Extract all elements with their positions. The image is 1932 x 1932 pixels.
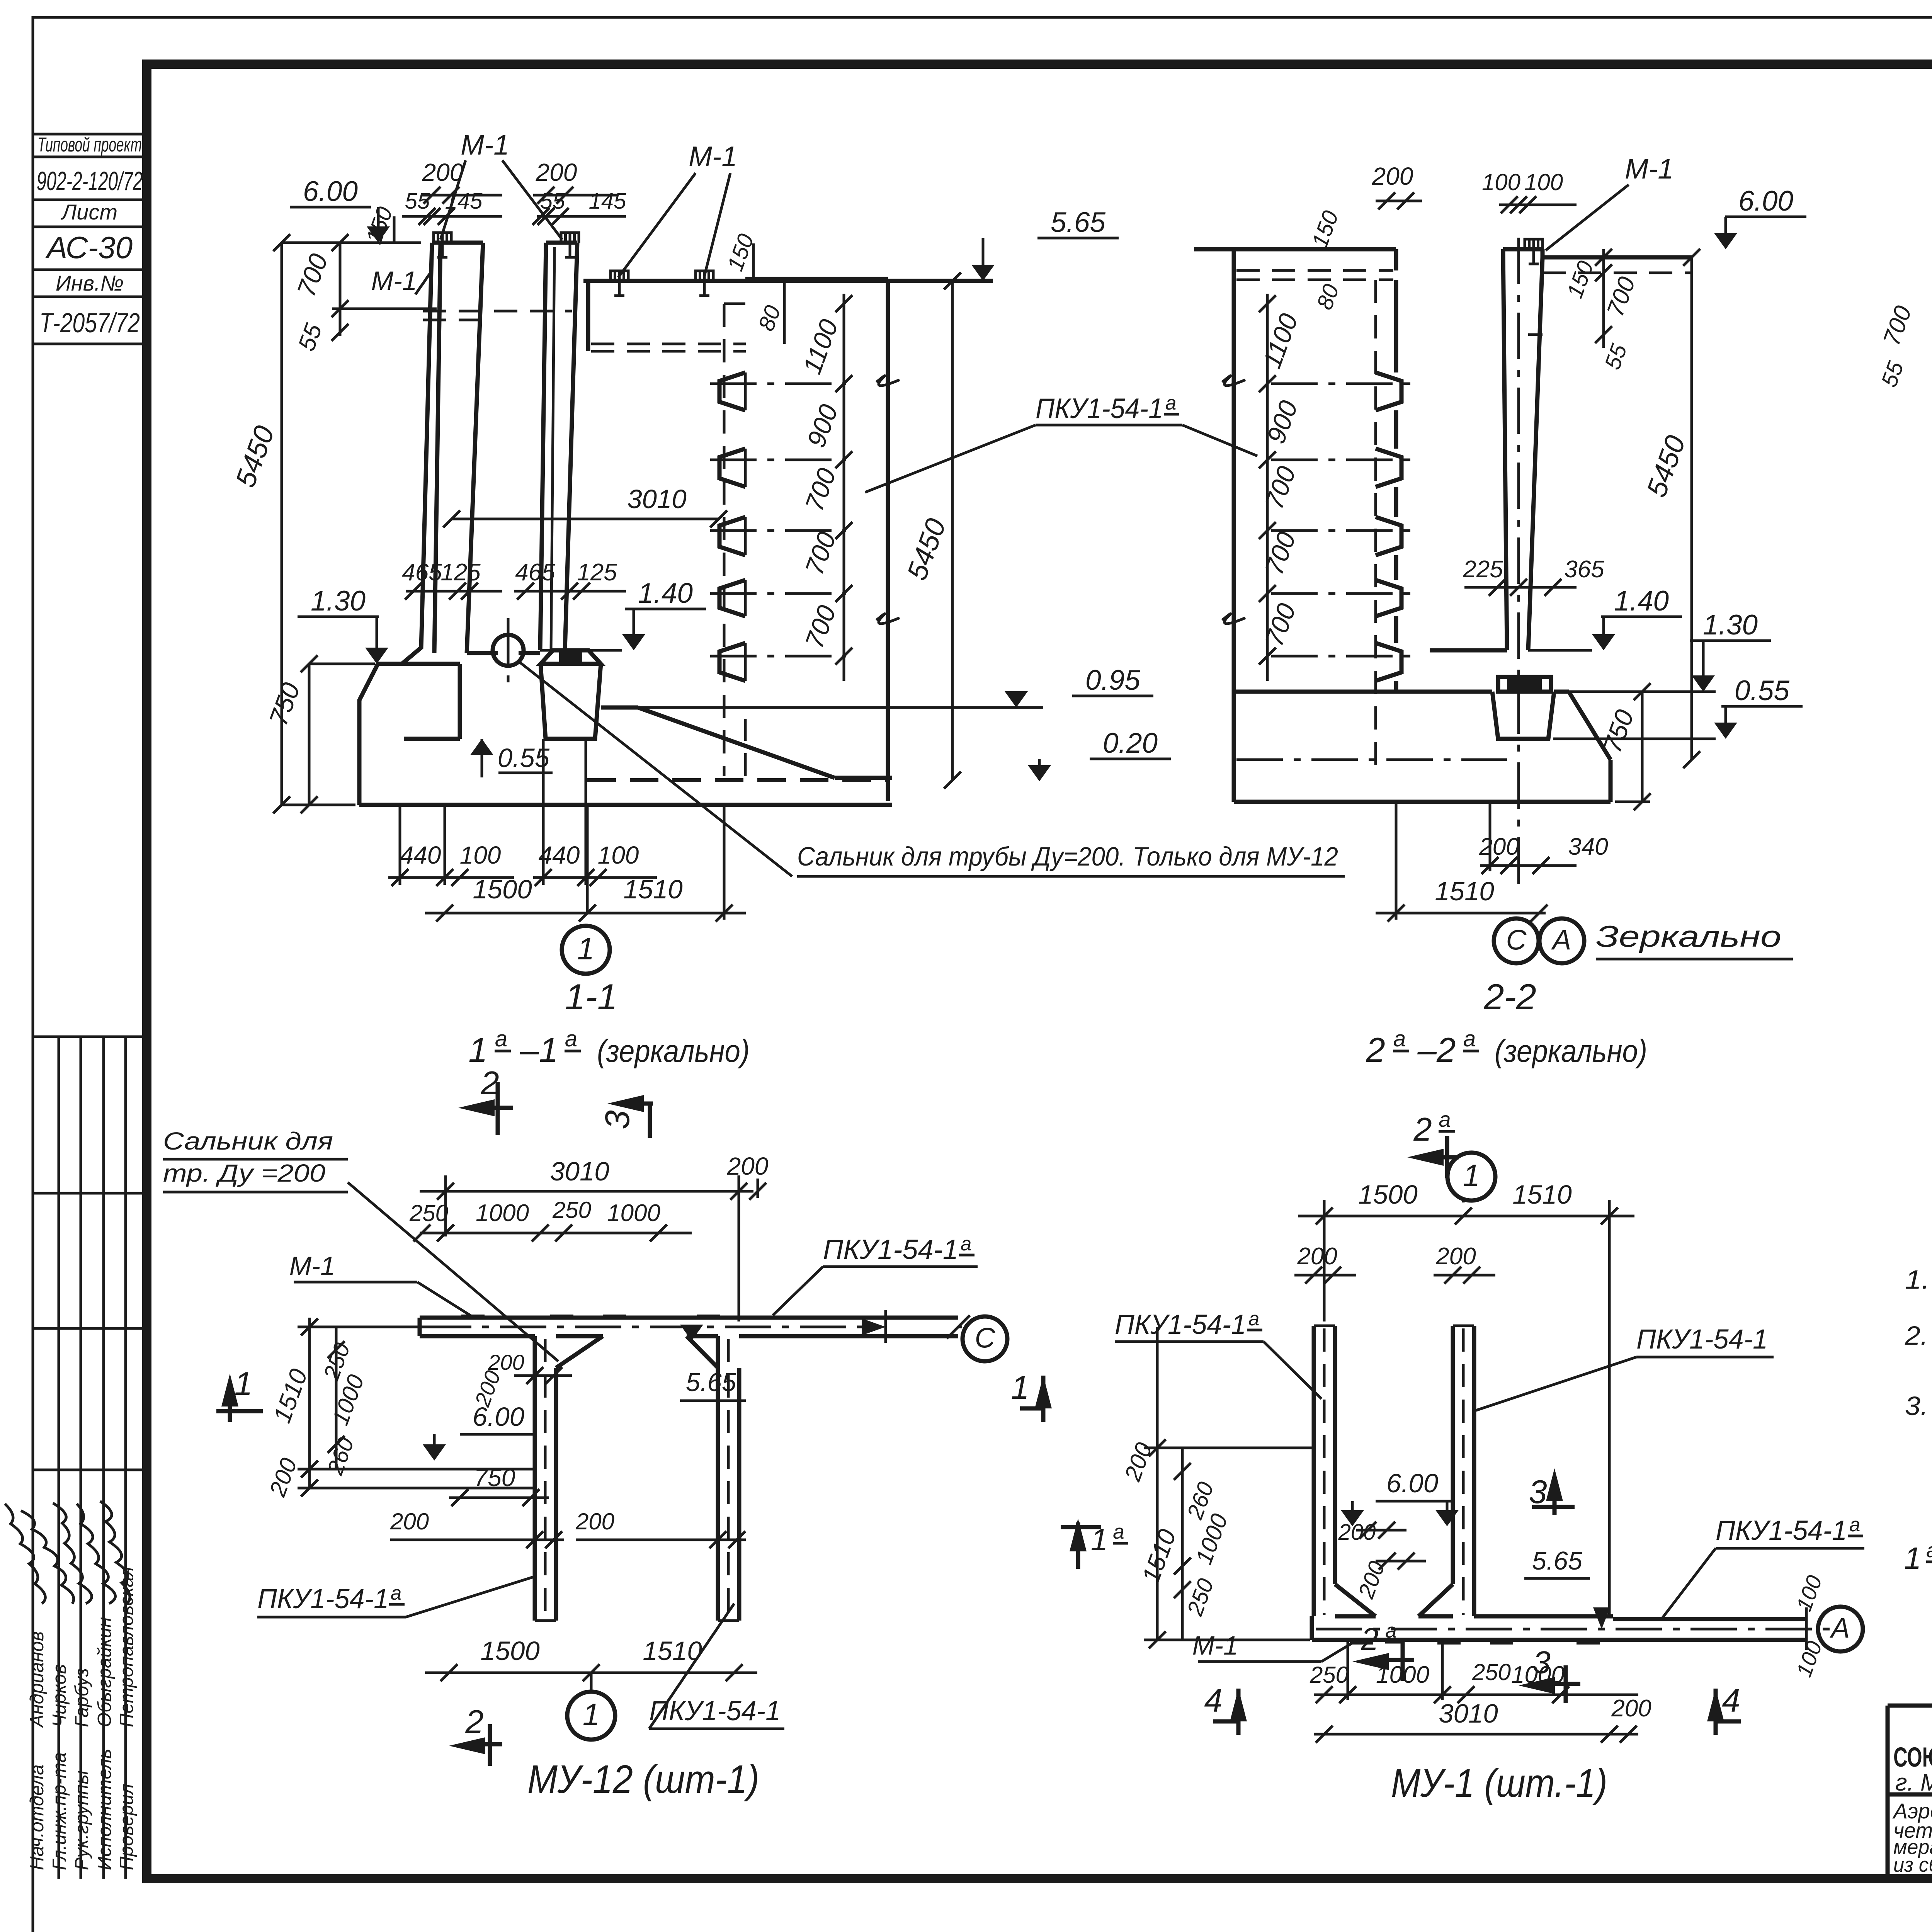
svg-text:340: 340 xyxy=(1568,833,1608,860)
svg-text:а: а xyxy=(961,1233,971,1255)
svg-text:а: а xyxy=(1165,392,1176,414)
svg-text:а: а xyxy=(1926,1539,1932,1562)
svg-text:440: 440 xyxy=(400,841,441,869)
MU-12 bottom dims 1500 1510 xyxy=(425,1672,757,1674)
svg-text:М-1: М-1 xyxy=(461,129,509,161)
section 1-1 footing base slab xyxy=(359,803,892,807)
svg-text:900: 900 xyxy=(802,401,844,451)
svg-text:200: 200 xyxy=(575,1509,614,1534)
section 2-2 right side dims 150 700 55 xyxy=(1602,249,1605,348)
svg-text:1510: 1510 xyxy=(1136,1526,1181,1587)
svg-text:1510: 1510 xyxy=(643,1636,702,1666)
svg-text:Гарбуз: Гарбуз xyxy=(71,1668,92,1727)
svg-text:М-1: М-1 xyxy=(1625,153,1673,185)
section 1-1 dim 5450 right xyxy=(951,281,954,780)
svg-text:2-2: 2-2 xyxy=(1483,976,1536,1017)
svg-text:(зеркально): (зеркально) xyxy=(597,1034,750,1069)
svg-text:750: 750 xyxy=(264,679,306,730)
svg-text:а: а xyxy=(1463,1026,1476,1051)
section 1-1 channel floor xyxy=(467,651,498,655)
svg-text:125: 125 xyxy=(577,559,617,586)
svg-text:–2: –2 xyxy=(1417,1031,1456,1069)
svg-text:200: 200 xyxy=(1297,1243,1337,1270)
svg-text:250: 250 xyxy=(1182,1575,1219,1619)
svg-text:4: 4 xyxy=(1204,1682,1222,1719)
svg-text:1: 1 xyxy=(577,931,595,966)
MU-1 inner 200 dims xyxy=(1356,1529,1406,1532)
svg-text:Лист: Лист xyxy=(61,200,117,224)
section 1-1 right wall outline xyxy=(540,243,546,650)
MU-1 bottom dims 250 1000 250 1000 xyxy=(1314,1694,1638,1696)
svg-text:3. Бетонирование производить: 3. Бетонирование производить с обязатель… xyxy=(1905,1391,1932,1421)
section 1-1 right top slab xyxy=(583,279,993,283)
section 2-2 top slab right xyxy=(1543,255,1692,260)
svg-text:700: 700 xyxy=(800,602,842,652)
svg-text:5.65: 5.65 xyxy=(1532,1546,1583,1575)
svg-text:а: а xyxy=(1113,1520,1124,1543)
MU-1 bottom dim 3010 200 xyxy=(1314,1733,1638,1736)
svg-text:Рук.группы: Рук.группы xyxy=(71,1770,92,1870)
svg-text:М-1: М-1 xyxy=(689,141,737,172)
svg-text:700: 700 xyxy=(292,250,334,301)
svg-text:Гл.инж.пр-та: Гл.инж.пр-та xyxy=(49,1752,70,1870)
svg-text:55: 55 xyxy=(405,189,430,214)
svg-text:260: 260 xyxy=(322,1434,359,1478)
section 2-2 footing base xyxy=(1234,800,1611,804)
svg-text:200: 200 xyxy=(1435,1243,1476,1270)
section 1-1 left wall outline xyxy=(402,243,432,664)
section 1-1 dim 5450 left xyxy=(281,243,283,805)
svg-text:700: 700 xyxy=(1260,528,1302,579)
MU-1 bottom wall band xyxy=(1312,1638,1806,1642)
svg-text:ПКУ1-54-1: ПКУ1-54-1 xyxy=(257,1584,389,1614)
svg-text:200: 200 xyxy=(488,1350,524,1374)
svg-text:200: 200 xyxy=(1479,833,1519,860)
svg-text:Типовой проект: Типовой проект xyxy=(37,134,142,156)
svg-text:3010: 3010 xyxy=(627,484,687,514)
svg-text:М-1: М-1 xyxy=(289,1251,335,1281)
svg-text:700: 700 xyxy=(1260,463,1302,513)
MU-1 dims 200 top xyxy=(1294,1274,1356,1277)
svg-text:200: 200 xyxy=(264,1454,302,1500)
svg-text:ПКУ1-54-1: ПКУ1-54-1 xyxy=(1636,1324,1768,1355)
svg-text:1: 1 xyxy=(234,1366,252,1402)
svg-text:а: а xyxy=(495,1026,507,1051)
svg-text:465: 465 xyxy=(402,559,442,586)
svg-text:100: 100 xyxy=(460,841,501,869)
svg-text:200: 200 xyxy=(727,1152,769,1180)
svg-text:225: 225 xyxy=(1463,556,1503,583)
section 2-2 bottom dim 1510 xyxy=(1376,912,1546,915)
svg-text:А: А xyxy=(1830,1612,1850,1644)
svg-text:1510: 1510 xyxy=(1435,876,1494,906)
svg-text:тр. Ду =200: тр. Ду =200 xyxy=(163,1159,325,1187)
svg-text:0.20: 0.20 xyxy=(1103,728,1158,759)
section 1-1 dim 750 xyxy=(308,664,311,805)
MU-12 inner corner chamfers xyxy=(556,1336,603,1368)
svg-text:55: 55 xyxy=(540,189,565,214)
section 1-1 axis circle 1 xyxy=(586,911,589,913)
svg-text:2: 2 xyxy=(1361,1622,1379,1657)
svg-text:Обыграйкин: Обыграйкин xyxy=(94,1617,115,1727)
title block frame xyxy=(1888,1704,1932,1708)
svg-text:6.00: 6.00 xyxy=(1738,185,1793,217)
svg-text:750: 750 xyxy=(1598,706,1640,757)
section 2-2 top dims xyxy=(1376,200,1422,202)
svg-text:125: 125 xyxy=(440,559,481,586)
svg-text:М-1: М-1 xyxy=(371,266,417,296)
svg-text:100: 100 xyxy=(598,841,639,869)
svg-text:5450: 5450 xyxy=(230,422,281,491)
svg-text:АС-30: АС-30 xyxy=(45,230,133,265)
svg-text:а: а xyxy=(391,1582,401,1604)
stamp column boxes xyxy=(33,133,147,136)
MU-12 axis circle 1 xyxy=(590,1673,593,1691)
svg-text:М-1: М-1 xyxy=(1192,1631,1238,1660)
section 1-1 middle pedestal xyxy=(559,652,582,662)
svg-text:200: 200 xyxy=(1611,1695,1651,1722)
svg-text:6.00: 6.00 xyxy=(473,1402,524,1432)
section 1-1 bottom dims 440 100 xyxy=(388,876,514,879)
svg-text:1: 1 xyxy=(468,1031,488,1069)
svg-text:(зеркально): (зеркально) xyxy=(1495,1034,1647,1069)
MU-12 M-1 plates on band xyxy=(461,1315,485,1319)
svg-text:а: а xyxy=(565,1026,577,1051)
svg-text:Сальник для: Сальник для xyxy=(163,1127,333,1155)
section 1-1 dims 465 125 xyxy=(406,590,502,593)
svg-text:1000: 1000 xyxy=(607,1200,660,1226)
svg-text:Сальник для трубы Ду=200. Толь: Сальник для трубы Ду=200. Только для МУ-… xyxy=(797,842,1338,871)
MU-12 dim 3010 200 top xyxy=(420,1190,753,1193)
MU-12 right wall band xyxy=(716,1336,720,1621)
svg-text:3010: 3010 xyxy=(1439,1699,1498,1728)
MU-12 left vertical dims xyxy=(308,1318,311,1488)
svg-text:150: 150 xyxy=(1307,207,1344,251)
svg-text:Андрианов: Андрианов xyxy=(27,1631,48,1728)
svg-text:0.95: 0.95 xyxy=(1085,665,1140,696)
svg-text:0.55: 0.55 xyxy=(1735,675,1789,706)
section 2-2 wall pedestal xyxy=(1507,679,1542,690)
section 1-1 pipe gland circle xyxy=(493,635,524,666)
MU-12 dims 250 1000 250 1000 xyxy=(420,1232,692,1235)
svg-text:1: 1 xyxy=(583,1697,600,1731)
section 1-1 top beam joint dashes xyxy=(423,310,572,313)
svg-text:1510: 1510 xyxy=(623,874,683,904)
MU-12 wall band ends xyxy=(535,1619,556,1622)
svg-text:4: 4 xyxy=(1722,1682,1740,1719)
svg-text:100: 100 xyxy=(1524,169,1563,195)
signatures scribbles xyxy=(5,1503,46,1604)
svg-text:Т-2057/72: Т-2057/72 xyxy=(39,308,140,338)
section 2-2 axis circles C A xyxy=(1494,918,1539,963)
section 1-1 right footing slope xyxy=(601,706,638,710)
section 1-1 left 700/55 dims xyxy=(339,243,342,336)
svg-text:700: 700 xyxy=(800,528,842,579)
section 2-2 channel floor left xyxy=(1430,648,1507,653)
svg-text:Проверил: Проверил xyxy=(116,1784,137,1870)
gland note and leader xyxy=(518,661,792,876)
MU-1 M-1 plates below band xyxy=(1350,1640,1373,1645)
svg-text:6.00: 6.00 xyxy=(303,176,358,207)
svg-text:440: 440 xyxy=(539,841,580,869)
section 2-2 footing slope right xyxy=(1569,692,1611,760)
svg-text:1-1: 1-1 xyxy=(565,976,617,1017)
section 1-1 top dims 200 xyxy=(421,194,502,197)
svg-text:1. Арматурный чертеж МУ-1 ,: 1. Арматурный чертеж МУ-1 , МУ-12 см. л.… xyxy=(1905,1265,1932,1294)
svg-text:80: 80 xyxy=(1312,281,1344,313)
svg-text:3: 3 xyxy=(1533,1645,1551,1680)
MU-12 left wall band xyxy=(533,1336,537,1621)
svg-text:1.40: 1.40 xyxy=(1614,585,1669,617)
svg-text:200: 200 xyxy=(1338,1520,1376,1545)
MU-1 C circle left xyxy=(963,1316,1007,1361)
section 2-2 precast panel xyxy=(1232,249,1236,802)
svg-text:1: 1 xyxy=(1463,1158,1480,1192)
svg-text:250: 250 xyxy=(1472,1659,1511,1685)
MU-1 inner corner chamfers xyxy=(1335,1584,1376,1616)
svg-text:55: 55 xyxy=(1876,358,1908,390)
svg-text:750: 750 xyxy=(474,1464,515,1492)
svg-text:Нач.отдела: Нач.отдела xyxy=(27,1765,48,1870)
svg-text:6.00: 6.00 xyxy=(1386,1468,1438,1498)
svg-text:5.65: 5.65 xyxy=(1051,207,1105,238)
svg-text:145: 145 xyxy=(589,189,627,214)
stamp signature grid xyxy=(33,1036,147,1038)
svg-text:2: 2 xyxy=(1413,1111,1432,1148)
svg-text:а: а xyxy=(1248,1308,1259,1330)
svg-text:250: 250 xyxy=(552,1197,591,1223)
svg-text:200: 200 xyxy=(1119,1439,1157,1485)
section 1-1 dim 150/right slab xyxy=(752,243,755,281)
svg-text:1100: 1100 xyxy=(798,316,844,378)
svg-text:3010: 3010 xyxy=(550,1156,609,1186)
MU-1 top dims 1500 1510 xyxy=(1298,1215,1634,1218)
svg-text:а: а xyxy=(1393,1026,1406,1051)
svg-text:1100: 1100 xyxy=(1257,310,1304,372)
svg-text:2: 2 xyxy=(465,1704,483,1740)
svg-text:1510: 1510 xyxy=(268,1365,313,1427)
svg-text:465: 465 xyxy=(515,559,555,586)
svg-text:С: С xyxy=(1506,924,1527,956)
section 2-2 dim 750 xyxy=(1641,692,1644,802)
MU-1 left wall band xyxy=(1312,1326,1316,1616)
svg-text:700: 700 xyxy=(800,464,842,515)
svg-text:Чирков: Чирков xyxy=(49,1664,70,1727)
svg-text:902-2-120/72: 902-2-120/72 xyxy=(37,166,143,196)
MU-12 750 dim xyxy=(449,1497,549,1499)
svg-text:80: 80 xyxy=(753,302,786,334)
section 2-2 dims 225 365 xyxy=(1464,586,1577,589)
svg-text:1500: 1500 xyxy=(480,1636,540,1666)
svg-text:250: 250 xyxy=(409,1200,448,1226)
section 1-1 dim 150 small xyxy=(393,216,396,243)
svg-text:5450: 5450 xyxy=(1641,431,1692,501)
svg-text:1500: 1500 xyxy=(473,874,532,904)
svg-text:250: 250 xyxy=(1310,1662,1349,1688)
svg-text:3: 3 xyxy=(598,1110,636,1129)
svg-text:1.30: 1.30 xyxy=(1703,609,1758,641)
svg-text:100: 100 xyxy=(1482,169,1520,195)
svg-text:из сборного железобетона: из сборного железобетона xyxy=(1893,1854,1932,1876)
MU-1 right wall band xyxy=(1451,1326,1455,1584)
svg-text:1000: 1000 xyxy=(476,1200,529,1226)
svg-text:1500: 1500 xyxy=(1358,1180,1418,1209)
svg-text:100: 100 xyxy=(1791,1572,1827,1614)
svg-text:А: А xyxy=(1551,924,1571,956)
section 2-2 panel joint centerlines xyxy=(1271,383,1412,385)
section 2-2 wall outline xyxy=(1503,249,1507,650)
section 1-1 panel tooth dim line xyxy=(843,294,845,681)
svg-text:Зеркально: Зеркально xyxy=(1596,919,1781,953)
MU-12 wall 200 dims xyxy=(514,1374,572,1377)
svg-text:Исполнитель: Исполнитель xyxy=(94,1749,115,1870)
section 2-2 tooth dims xyxy=(1266,294,1269,681)
svg-text:а: а xyxy=(1385,1619,1396,1642)
svg-text:г. Москва: г. Москва xyxy=(1895,1769,1932,1796)
section 2-2 panel teeth xyxy=(1376,372,1401,410)
section 2-2 footing xyxy=(1234,690,1492,694)
svg-text:700: 700 xyxy=(1878,303,1917,349)
svg-text:С: С xyxy=(975,1322,996,1354)
svg-text:а: а xyxy=(1849,1514,1860,1536)
svg-text:2: 2 xyxy=(1366,1031,1385,1069)
svg-text:5.65: 5.65 xyxy=(686,1368,736,1397)
svg-text:200: 200 xyxy=(1353,1558,1390,1602)
MU-1 left side dims xyxy=(1156,1327,1159,1640)
svg-text:МУ-1 (шт.-1): МУ-1 (шт.-1) xyxy=(1391,1761,1607,1805)
section 1-1 top dims 55 145 xyxy=(402,215,502,218)
MU-12 band extension panel xyxy=(886,1316,958,1320)
svg-text:200: 200 xyxy=(536,158,577,186)
svg-text:200: 200 xyxy=(1372,162,1413,190)
section 1-1 elevation 0.55 xyxy=(481,739,483,777)
svg-text:а: а xyxy=(1439,1107,1451,1131)
svg-text:ПКУ1-54-1: ПКУ1-54-1 xyxy=(1036,393,1163,424)
svg-text:ПКУ1-54-1: ПКУ1-54-1 xyxy=(823,1235,958,1265)
panel break marks xyxy=(876,376,900,386)
section 2-2 panel break marks xyxy=(1222,376,1245,386)
svg-text:Инв.№: Инв.№ xyxy=(56,271,124,295)
svg-text:ПКУ1-54-1: ПКУ1-54-1 xyxy=(1716,1515,1847,1546)
svg-text:700: 700 xyxy=(1602,274,1641,320)
svg-text:200: 200 xyxy=(390,1509,429,1534)
svg-text:СОЮЗВОДОКАНАЛПРОЕКТ: СОЮЗВОДОКАНАЛПРОЕКТ xyxy=(1893,1742,1932,1773)
section 2-2 dim 5450 xyxy=(1690,257,1693,760)
svg-text:150: 150 xyxy=(1562,258,1599,301)
svg-text:1510: 1510 xyxy=(1512,1180,1572,1209)
section 1-1 M-1 plates on wall tops xyxy=(434,233,451,243)
svg-text:–1: –1 xyxy=(520,1031,558,1069)
svg-text:1.40: 1.40 xyxy=(638,578,693,609)
svg-text:ПКУ1-54-1: ПКУ1-54-1 xyxy=(1115,1310,1246,1340)
svg-text:2. Закладные детали заложит: 2. Закладные детали заложить в опалубку xyxy=(1905,1321,1932,1350)
MU-1 A circle right xyxy=(1818,1607,1863,1651)
svg-text:1: 1 xyxy=(1904,1541,1922,1575)
svg-text:55: 55 xyxy=(293,320,328,354)
svg-text:1: 1 xyxy=(1011,1369,1029,1406)
section 1-1 dim 3010 xyxy=(452,518,719,520)
section 2-2 bottom dims 200 340 xyxy=(1480,864,1577,867)
MU-1 axis circle 1 top xyxy=(1462,1200,1465,1202)
svg-text:5450: 5450 xyxy=(901,514,952,584)
panel teeth xyxy=(719,372,745,410)
panel lower part xyxy=(744,719,747,776)
svg-text:1.30: 1.30 xyxy=(311,585,366,617)
section 2-2 top slab left of panel xyxy=(1194,247,1234,252)
panel joint centerlines xyxy=(710,383,846,385)
svg-text:365: 365 xyxy=(1564,556,1604,583)
MU-12 top wall band xyxy=(420,1316,886,1320)
section 1-1 bottom dims 1500 1510 xyxy=(425,912,746,915)
svg-text:700: 700 xyxy=(1260,600,1302,650)
section 1-1 precast panel PKU xyxy=(886,279,890,801)
svg-text:МУ-12 (шт-1): МУ-12 (шт-1) xyxy=(527,1757,759,1801)
section 1-1 left footing xyxy=(359,664,402,805)
svg-text:150: 150 xyxy=(361,204,398,247)
